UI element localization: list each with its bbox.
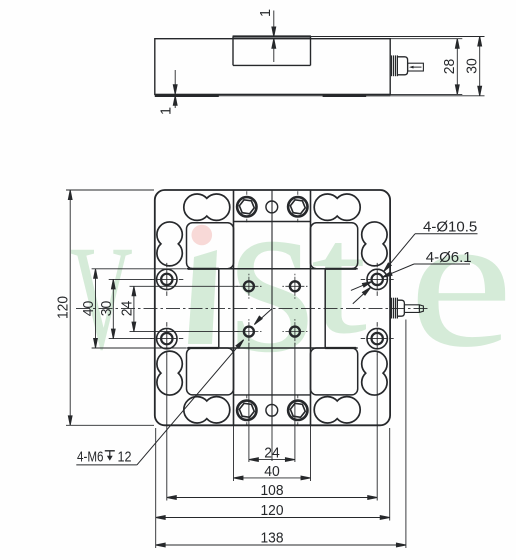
label dia6.1 underline [414, 263, 470, 265]
side view bottom step bold left [155, 95, 219, 97]
pocket right edge [324, 269, 326, 348]
bottom band top line [234, 394, 311, 396]
side ext line body top [390, 38, 462, 40]
corner block top-right [311, 223, 358, 269]
side view raised block sides [232, 37, 234, 66]
hex bolt tick marks [247, 191, 298, 425]
small circle top center [266, 201, 278, 213]
svg-text:4-M6: 4-M6 [77, 449, 104, 466]
flanged hole lower-left [157, 328, 177, 348]
svg-text:V: V [70, 215, 133, 381]
dim 24 bottom [249, 459, 295, 461]
svg-text:12: 12 [118, 449, 132, 466]
dim 120 bottom [156, 517, 390, 519]
ext line band top [92, 268, 186, 270]
svg-text:24: 24 [264, 446, 280, 462]
ext line hole row bottom [109, 338, 152, 340]
svg-text:4-Ø6.1: 4-Ø6.1 [426, 249, 472, 266]
plate outline [155, 190, 390, 425]
ext line M6 row top [130, 285, 240, 287]
ext line M6 col right [294, 343, 296, 462]
svg-text:30: 30 [99, 301, 115, 317]
ext line center col [271, 425, 273, 461]
svg-text:120: 120 [261, 503, 284, 519]
top band bottom line [234, 221, 311, 223]
leader M6 label segment [137, 340, 244, 465]
M6 hole lower-left [244, 327, 254, 337]
plan connector ribs [391, 298, 393, 319]
hex bolt bottom-left [237, 401, 256, 420]
svg-text:24: 24 [120, 301, 136, 317]
watermark letter i stem [188, 250, 217, 344]
side view raised block bottom [233, 64, 311, 66]
dim 28 [456, 39, 458, 95]
leader dia10.5 far segment [353, 287, 371, 304]
peanut cutout right-upper vertical [362, 222, 387, 266]
ext line M6 row bottom [130, 331, 240, 333]
svg-text:108: 108 [261, 483, 284, 499]
dim 30 left [112, 279, 114, 338]
side view bottom step thin [155, 95, 390, 97]
vertical center line [271, 190, 273, 425]
ext line plate right col [389, 428, 391, 521]
dim 1 top stem upper [273, 11, 275, 37]
M6 hole upper-left [244, 281, 254, 291]
side ext line block top [311, 36, 485, 38]
leader dia10.5 near segment [384, 234, 415, 272]
ext line plate left col [155, 428, 157, 548]
ext line connector col [405, 320, 407, 549]
label 4-M6 underline [76, 464, 137, 466]
svg-text:30: 30 [465, 58, 481, 74]
watermark i dot [192, 225, 213, 246]
M6 hole upper-right [290, 281, 300, 291]
peanut cutout left-upper vertical [157, 222, 182, 266]
ext line hole col right [376, 355, 378, 501]
flanged hole upper-left outer [157, 269, 177, 289]
side ext line step bottom [366, 95, 484, 97]
plan connector pin [404, 305, 423, 313]
svg-text:120: 120 [56, 296, 72, 319]
hex bolt top-right [288, 197, 307, 216]
side view raised block top [233, 35, 311, 37]
center band top edge [187, 268, 358, 270]
dim 108 bottom [167, 497, 377, 499]
peanut cutout top-left [184, 194, 230, 220]
ext line hole row top [109, 278, 152, 280]
dim 24 left [133, 286, 135, 331]
pocket left edge [218, 269, 220, 348]
dim 40 bottom [234, 477, 311, 479]
dim 120 left [69, 190, 71, 425]
hex bolt bottom-right [288, 401, 307, 420]
side connector pin arrow [412, 66, 422, 68]
svg-text:138: 138 [261, 531, 284, 547]
leader M6 far segment [254, 309, 272, 325]
dim 1 bottom stem upper [174, 70, 176, 94]
ext line M6 col left [248, 343, 250, 462]
dim 40 left [95, 269, 97, 348]
leader dia6.1 near segment [383, 264, 415, 277]
side connector cap [397, 57, 407, 75]
dim 1 top stem lower [273, 39, 275, 62]
side ext line body bottom [390, 93, 462, 95]
dim 30 [479, 37, 481, 96]
svg-text:40: 40 [81, 301, 97, 317]
dim 138 bottom [156, 544, 406, 546]
peanut cutout bottom-left [184, 397, 230, 423]
peanut cutout right-lower vertical [362, 351, 387, 395]
ext line plate top left [66, 189, 154, 191]
svg-text:40: 40 [264, 464, 280, 480]
peanut cutout left-lower vertical [157, 351, 182, 395]
peanut cutout top-right [314, 194, 360, 220]
leader dia6.1 far segment [351, 282, 372, 291]
side connector pin [408, 63, 424, 71]
ext line strip left [233, 425, 235, 481]
ext line strip right [310, 425, 312, 481]
flanged hole upper-right [367, 269, 387, 289]
svg-text:4-Ø10.5: 4-Ø10.5 [423, 219, 477, 236]
corner block bottom-left [187, 348, 234, 395]
side view body [155, 39, 390, 95]
plan connector cap [397, 300, 404, 316]
svg-text:1: 1 [258, 9, 274, 17]
svg-text:1: 1 [159, 107, 175, 115]
corner block bottom-right [311, 348, 358, 395]
side view bottom step bold right [323, 95, 367, 97]
flanged hole lower-right [367, 328, 387, 348]
svg-text:28: 28 [442, 59, 458, 75]
corner block top-left [187, 223, 234, 269]
dim 1 bottom stem lower [174, 96, 176, 108]
band edge bold steps [188, 269, 356, 348]
peanut cutout bottom-right [314, 397, 360, 423]
vertical line right of center strip [310, 190, 312, 425]
center band bottom edge [187, 347, 358, 349]
ext line hole col left [166, 355, 168, 501]
ext line plate bottom left [66, 424, 154, 426]
plan centerline dash-dot [76, 308, 431, 310]
side connector ribs [391, 55, 393, 76]
svg-text:e: e [409, 174, 514, 387]
M6 hole lower-right [290, 327, 300, 337]
ext line band bottom [92, 347, 186, 349]
hex bolt top-left [237, 197, 256, 216]
label dia10.5 underline [415, 233, 478, 235]
vertical line left of center strip [233, 190, 235, 425]
small circle bottom center [266, 404, 278, 416]
